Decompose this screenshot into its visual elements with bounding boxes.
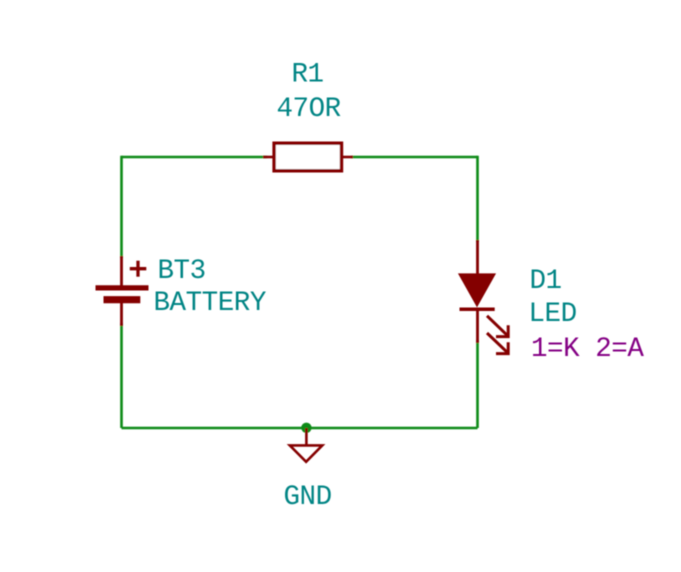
svg-text:1=K 2=A: 1=K 2=A	[531, 334, 644, 365]
svg-text:BT3: BT3	[158, 256, 206, 287]
LED D1 emission arrow 1	[487, 316, 508, 337]
ground stub wire	[305, 428, 308, 445]
wire top right segment	[351, 156, 478, 159]
svg-text:GND: GND	[284, 482, 332, 513]
svg-text:LED: LED	[529, 299, 577, 330]
svg-text:47OR: 47OR	[277, 94, 341, 125]
resistor R1 pin 2	[341, 156, 353, 159]
battery BT3 negative plate	[104, 296, 141, 303]
svg-text:D1: D1	[530, 266, 562, 297]
junction node at ground	[301, 423, 311, 433]
wire bottom	[122, 427, 478, 430]
LED D1 pin 2 anode (top)	[476, 240, 479, 277]
wire left vertical lower	[120, 323, 123, 428]
LED D1 triangle body	[459, 274, 494, 306]
LED D1 pin 1 cathode (bottom)	[476, 308, 479, 343]
resistor R1 body	[274, 143, 341, 171]
svg-text:R1: R1	[292, 60, 324, 91]
svg-text:BATTERY: BATTERY	[154, 288, 266, 319]
resistor R1 pin 1	[263, 156, 275, 159]
battery BT3 positive plate	[96, 285, 149, 290]
wire left vertical upper	[120, 156, 123, 258]
wire top: node A to node B	[122, 156, 268, 159]
battery BT3 pin + (top)	[120, 256, 123, 287]
LED D1 cathode bar	[460, 307, 495, 311]
battery BT3 pin - (bottom)	[120, 301, 123, 326]
battery BT3 plus sign	[130, 261, 147, 277]
wire right vertical upper	[476, 156, 479, 242]
ground symbol triangle	[290, 445, 323, 461]
LED D1 emission arrow 2	[487, 333, 508, 354]
wire right vertical lower	[476, 340, 479, 428]
